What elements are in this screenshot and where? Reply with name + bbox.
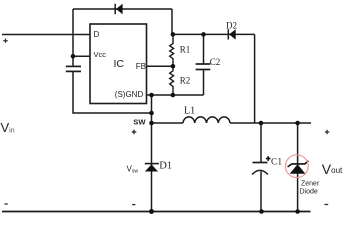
node: D1 bottom rail <box>149 209 154 214</box>
wire: C1 top lead <box>260 123 262 163</box>
node: top rail / R1 top <box>171 32 176 37</box>
svg-text:R2: R2 <box>180 76 191 86</box>
IC U1 box <box>90 24 147 104</box>
wire: top loop right vertical x=172 <box>171 9 173 34</box>
node: cap return / main vertical <box>149 111 154 116</box>
wire: input cap bottom lead down and across to SW node <box>73 71 152 113</box>
plus sign under SW <box>132 130 137 135</box>
red highlight circle around zener <box>285 155 308 178</box>
wire: C2 top lead <box>203 34 205 64</box>
svg-text:Zener: Zener <box>301 181 320 188</box>
node: C1 bottom rail <box>259 209 264 214</box>
node: R2 bottom <box>171 93 176 98</box>
svg-text:Vcc: Vcc <box>94 50 107 59</box>
resistor R1 <box>170 34 174 66</box>
wire: FB pin wire <box>147 65 174 67</box>
svg-text:FB: FB <box>136 62 146 71</box>
svg-text:IC: IC <box>114 58 125 70</box>
minus sign output right <box>324 204 328 206</box>
wire: SW rail left segment to L1 <box>152 122 184 124</box>
svg-text:C1: C1 <box>271 157 282 167</box>
wire: top loop vertical left x=73 down through Vcc node to input cap <box>72 9 74 66</box>
node: zener bottom rail <box>295 209 300 214</box>
inductor L1 <box>183 117 230 123</box>
capacitor C1 (output, polarized) <box>252 163 268 175</box>
wire: top rail y=34.4 from R1 top to D2 corner <box>172 33 255 35</box>
node: C1 top <box>259 121 264 126</box>
node: GND wire / main vertical <box>149 93 154 98</box>
diode (top, unlabeled) on top loop <box>115 4 122 15</box>
wire: (S)GND pin wire <box>147 94 204 96</box>
C1 polarity plus <box>266 156 271 161</box>
svg-text:L1: L1 <box>184 106 195 117</box>
capacitor Cin (input, unlabeled) <box>66 66 81 71</box>
wire: bottom rail <box>2 211 311 213</box>
svg-text:R1: R1 <box>180 45 191 55</box>
wire: zener branch vertical <box>297 123 299 212</box>
diode D2 <box>228 29 235 39</box>
svg-text:(S)GND: (S)GND <box>115 90 144 99</box>
resistor R2 <box>170 66 174 95</box>
svg-text:D1: D1 <box>159 161 172 172</box>
wire: C1 bottom lead <box>260 172 262 212</box>
node: Vcc junction <box>71 54 76 59</box>
wire: main input plus line to IC pin D <box>2 34 90 36</box>
wire: main vertical x=151.5 from GND wire to bottom rail <box>151 95 153 212</box>
diode D1 (freewheel, vertical) <box>145 164 159 172</box>
plus sign output right <box>325 130 329 134</box>
minus sign input left <box>4 203 7 205</box>
capacitor C2 <box>196 64 211 70</box>
svg-text:C2: C2 <box>210 57 221 67</box>
svg-text:D: D <box>94 30 100 39</box>
svg-text:Diode: Diode <box>300 189 318 196</box>
wire: output rail right of L1 <box>230 122 311 124</box>
wire: vertical from D2 down to output rail <box>254 34 256 123</box>
minus sign bottom of D1 branch <box>132 204 135 206</box>
node: SW rail junction <box>149 121 154 126</box>
wire: top loop horizontal y=9 <box>73 8 172 10</box>
plus sign input left <box>3 39 7 43</box>
wire: Vcc pin wire <box>73 55 90 57</box>
node: top rail / C2 top <box>201 32 206 37</box>
node: zener top <box>295 121 300 126</box>
node: FB / R1-R2 junction <box>171 64 176 69</box>
svg-text:SW: SW <box>133 118 146 127</box>
wire: C2 bottom lead <box>203 70 205 96</box>
zener diode ZD1 <box>288 161 309 174</box>
svg-text:D2: D2 <box>226 20 237 30</box>
